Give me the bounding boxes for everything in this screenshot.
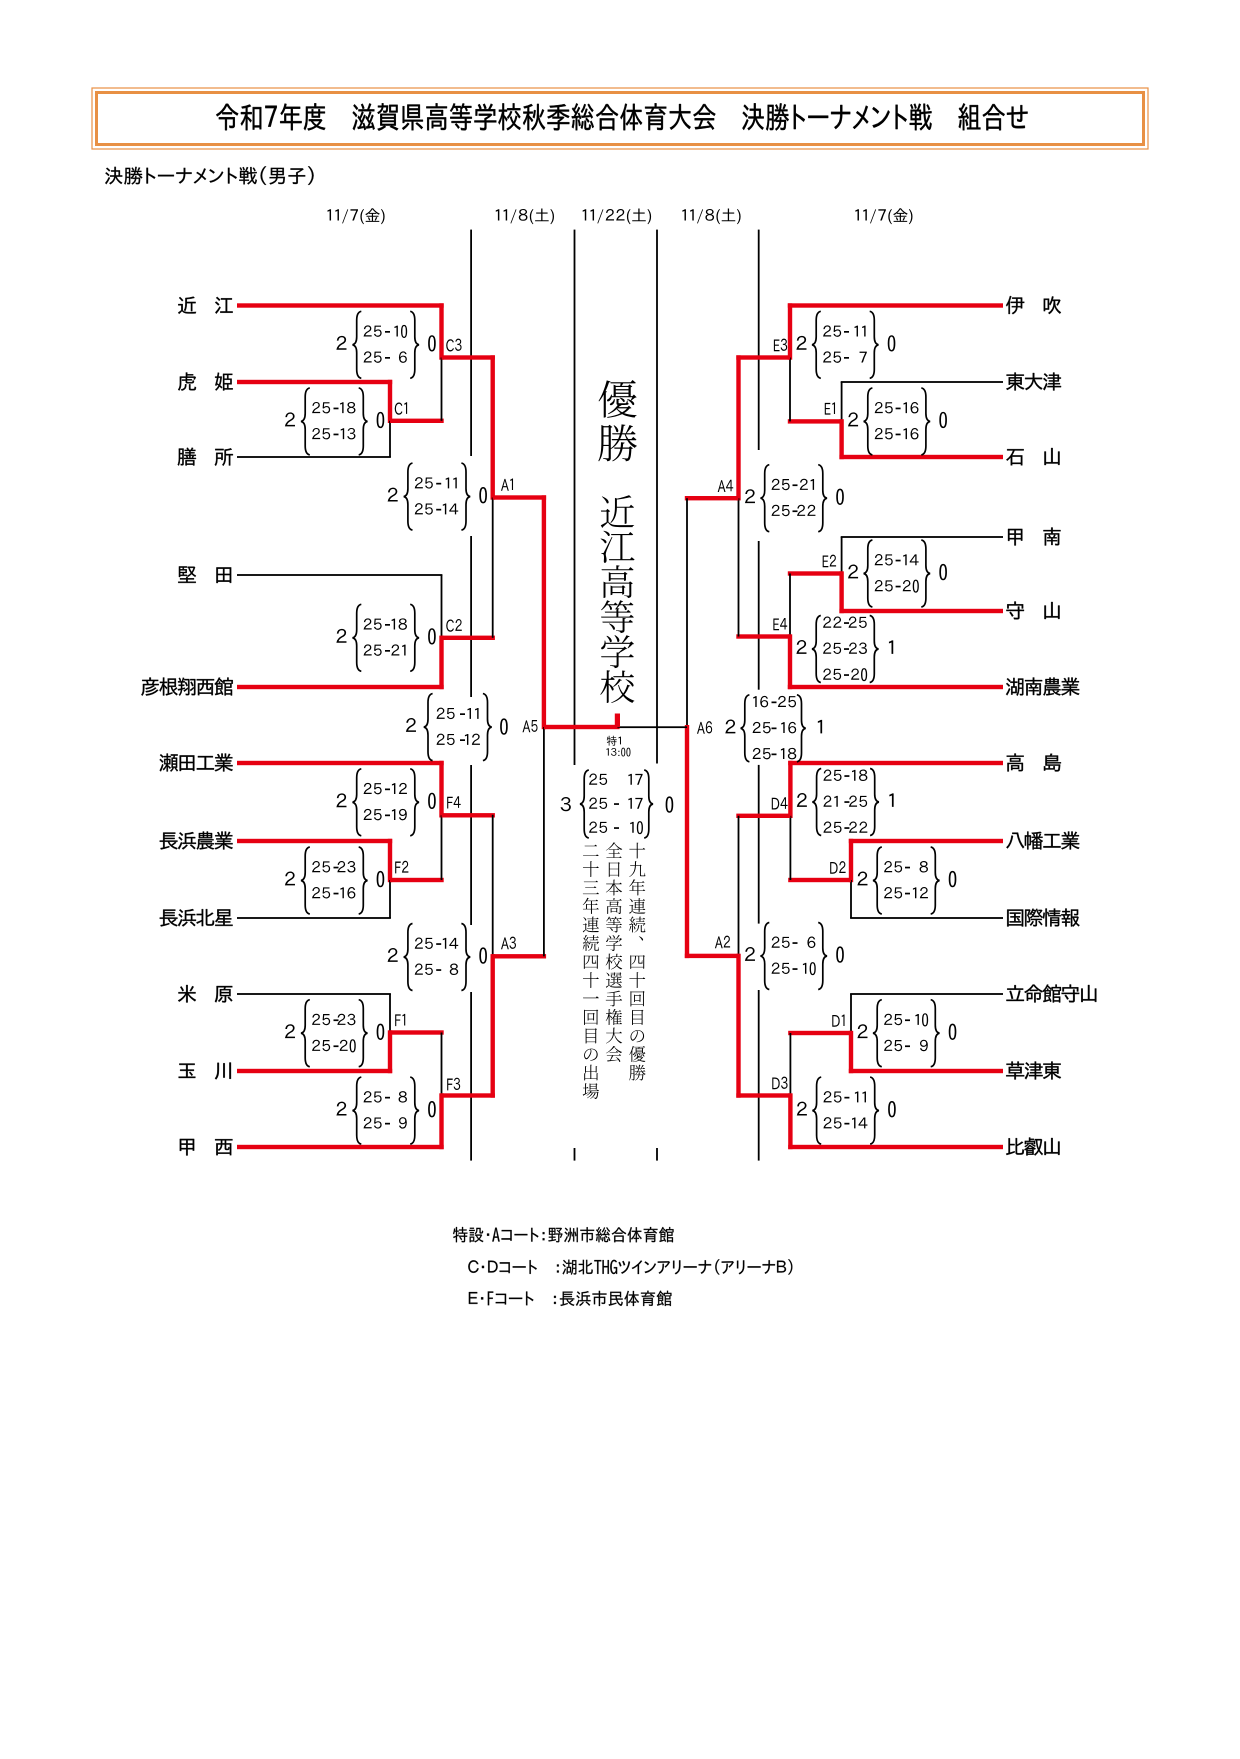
- label F4: [447, 796, 461, 808]
- team 守山: [1006, 601, 1059, 619]
- label D4: [772, 797, 788, 809]
- score F3: [336, 1102, 346, 1116]
- team 虎姫: [178, 372, 233, 390]
- match E3 connector: [788, 303, 792, 359]
- score A1: [388, 488, 398, 502]
- venue line 3: [469, 1291, 672, 1306]
- match A4 winner line: [685, 496, 739, 500]
- match F4 winner line: [442, 813, 495, 817]
- match E3 winner line: [736, 355, 790, 359]
- team 膳所: [178, 448, 233, 466]
- match C2 winner line: [442, 636, 495, 640]
- match A3 winner line: [493, 954, 546, 958]
- match A4 connector: [736, 355, 740, 500]
- title text: [216, 103, 1027, 130]
- team 草津東: [1006, 1061, 1061, 1079]
- match C3 connector: [439, 303, 443, 359]
- line team 彦根翔西館: [237, 685, 444, 689]
- court note 特1: [607, 736, 621, 746]
- score A3: [388, 948, 398, 962]
- match E4 winner line: [736, 634, 790, 638]
- team 八幡工業: [1006, 831, 1079, 849]
- match E4 connector: [789, 574, 791, 637]
- match A1 winner line: [493, 495, 546, 499]
- match C3 winner line: [442, 355, 495, 359]
- match C2 connector: [441, 575, 443, 638]
- score D3: [797, 1102, 807, 1116]
- match E2 connector: [841, 537, 843, 574]
- line team 堅田: [237, 574, 442, 576]
- team 伊吹: [1006, 296, 1061, 314]
- team 国際情報: [1007, 908, 1079, 926]
- label C1: [395, 402, 407, 414]
- note column left: [583, 845, 599, 1099]
- note column middle: [606, 842, 623, 1062]
- match D1 winner line: [788, 1031, 851, 1035]
- label D2: [830, 861, 845, 874]
- line team 石山: [839, 455, 1003, 459]
- score E3: [796, 336, 806, 350]
- score F2: [285, 872, 295, 886]
- line team 伊吹: [788, 303, 1003, 307]
- match A6 connector: [686, 498, 688, 727]
- label A6: [697, 721, 712, 734]
- team 東大津: [1006, 372, 1061, 390]
- score C3: [336, 336, 346, 350]
- score F4: [336, 793, 346, 807]
- title box inner border: [97, 93, 1144, 145]
- date 11/8(土) left: [496, 208, 554, 224]
- champion name 近江高等学校: [600, 495, 634, 703]
- line team 守山: [839, 609, 1003, 613]
- label E3: [774, 339, 787, 352]
- label F3: [447, 1078, 460, 1091]
- team 長浜農業: [160, 831, 233, 849]
- match A3 connector: [492, 815, 494, 957]
- score E4: [796, 640, 806, 654]
- note column right: [629, 843, 645, 1081]
- line team 東大津: [841, 381, 1003, 383]
- match A1 connector: [491, 355, 495, 499]
- team 湖南農業: [1006, 677, 1079, 695]
- line team 虎姫: [237, 380, 392, 384]
- team 石山: [1006, 448, 1059, 465]
- score C1: [285, 412, 295, 426]
- divider line 2: [574, 230, 576, 765]
- score A6: [725, 720, 735, 734]
- divider line 4: [758, 230, 760, 450]
- label F1: [395, 1014, 405, 1026]
- venue line 1: [453, 1227, 673, 1242]
- match E2 winner line: [788, 571, 842, 575]
- score E2: [848, 565, 858, 579]
- line team 湖南農業: [788, 685, 1003, 689]
- team 甲西: [180, 1139, 233, 1156]
- line team 立命館守山: [850, 993, 1003, 995]
- label D3: [772, 1077, 787, 1090]
- team 立命館守山: [1006, 984, 1096, 1002]
- match F4 connector: [439, 761, 443, 818]
- score C2: [336, 629, 346, 643]
- label E4: [773, 618, 787, 630]
- match D2 connector: [849, 839, 853, 882]
- match A2 connector: [738, 816, 740, 956]
- champion heading 優勝: [598, 380, 637, 461]
- match D4 connector: [788, 761, 792, 818]
- team 米原: [178, 985, 232, 1003]
- match D2 winner line: [788, 878, 851, 882]
- match D1 connector: [850, 994, 852, 1033]
- label E2: [823, 555, 836, 568]
- team 瀬田工業: [160, 753, 233, 771]
- score final: [561, 797, 571, 811]
- team 甲南: [1008, 527, 1061, 545]
- line team 草津東: [849, 1069, 1003, 1073]
- label E1: [825, 402, 835, 414]
- line team 瀬田工業: [237, 761, 444, 765]
- score D2: [857, 872, 867, 886]
- team 玉川: [179, 1062, 231, 1079]
- venue line 2: [468, 1259, 792, 1274]
- final line black: [617, 726, 687, 728]
- line team 玉川: [237, 1069, 392, 1073]
- team 長浜北星: [160, 909, 233, 927]
- date 11/22(土) center: [583, 208, 651, 224]
- label C2: [446, 619, 462, 632]
- match C1 winner line: [390, 419, 444, 423]
- champion tick: [615, 714, 620, 728]
- score A5: [406, 718, 416, 732]
- score F1: [285, 1024, 295, 1038]
- line team 米原: [237, 993, 391, 995]
- line team 長浜農業: [237, 839, 392, 843]
- title box outer border: [92, 88, 1148, 149]
- team 彦根翔西館: [141, 677, 233, 695]
- team 比叡山: [1006, 1137, 1059, 1155]
- score A4: [745, 489, 755, 503]
- date 11/7(金) left: [327, 208, 384, 224]
- score D4: [797, 793, 807, 807]
- label C3: [446, 339, 461, 352]
- match F1 winner line: [390, 1030, 444, 1034]
- team 近江: [178, 297, 233, 314]
- label A2: [715, 936, 730, 949]
- score A2: [745, 947, 755, 961]
- match F3 connector: [441, 1033, 443, 1096]
- match E1 connector: [841, 382, 843, 421]
- label A1: [501, 479, 513, 491]
- subtitle: [105, 166, 313, 185]
- line team 比叡山: [788, 1145, 1003, 1149]
- match F2 connector: [388, 839, 392, 882]
- date 11/8(土) right: [682, 208, 740, 224]
- line team 国際情報: [850, 917, 1003, 919]
- match F1 connector: [389, 994, 391, 1033]
- line team 甲南: [841, 536, 1003, 538]
- team 堅田: [178, 566, 231, 583]
- match A2 winner line: [685, 954, 739, 958]
- label D1: [832, 1015, 844, 1027]
- score E1: [848, 412, 858, 426]
- match E1 winner line: [788, 419, 842, 423]
- match A5 connector: [542, 495, 546, 729]
- divider line 3: [656, 230, 658, 764]
- team 高島: [1007, 753, 1061, 771]
- line team 高島: [788, 761, 1003, 765]
- divider line 1: [470, 230, 472, 456]
- line team 膳所: [237, 456, 391, 458]
- match A5 winner line: [544, 725, 620, 729]
- time 13:00: [606, 748, 630, 757]
- score D1: [857, 1024, 867, 1038]
- match D3 winner line: [736, 1093, 790, 1097]
- label A4: [718, 480, 734, 492]
- label A5: [522, 720, 537, 732]
- line team 甲西: [237, 1145, 444, 1149]
- line team 長浜北星: [237, 917, 391, 919]
- match C1 connector: [388, 380, 392, 423]
- date 11/7(金) right: [855, 208, 912, 224]
- match F3 winner line: [442, 1093, 495, 1097]
- match D4 winner line: [736, 814, 790, 818]
- match F2 winner line: [390, 878, 444, 882]
- label F2: [395, 861, 408, 874]
- label A3: [501, 937, 516, 950]
- match D3 connector: [790, 1033, 792, 1096]
- line team 八幡工業: [849, 839, 1003, 843]
- line team 近江: [237, 303, 444, 307]
